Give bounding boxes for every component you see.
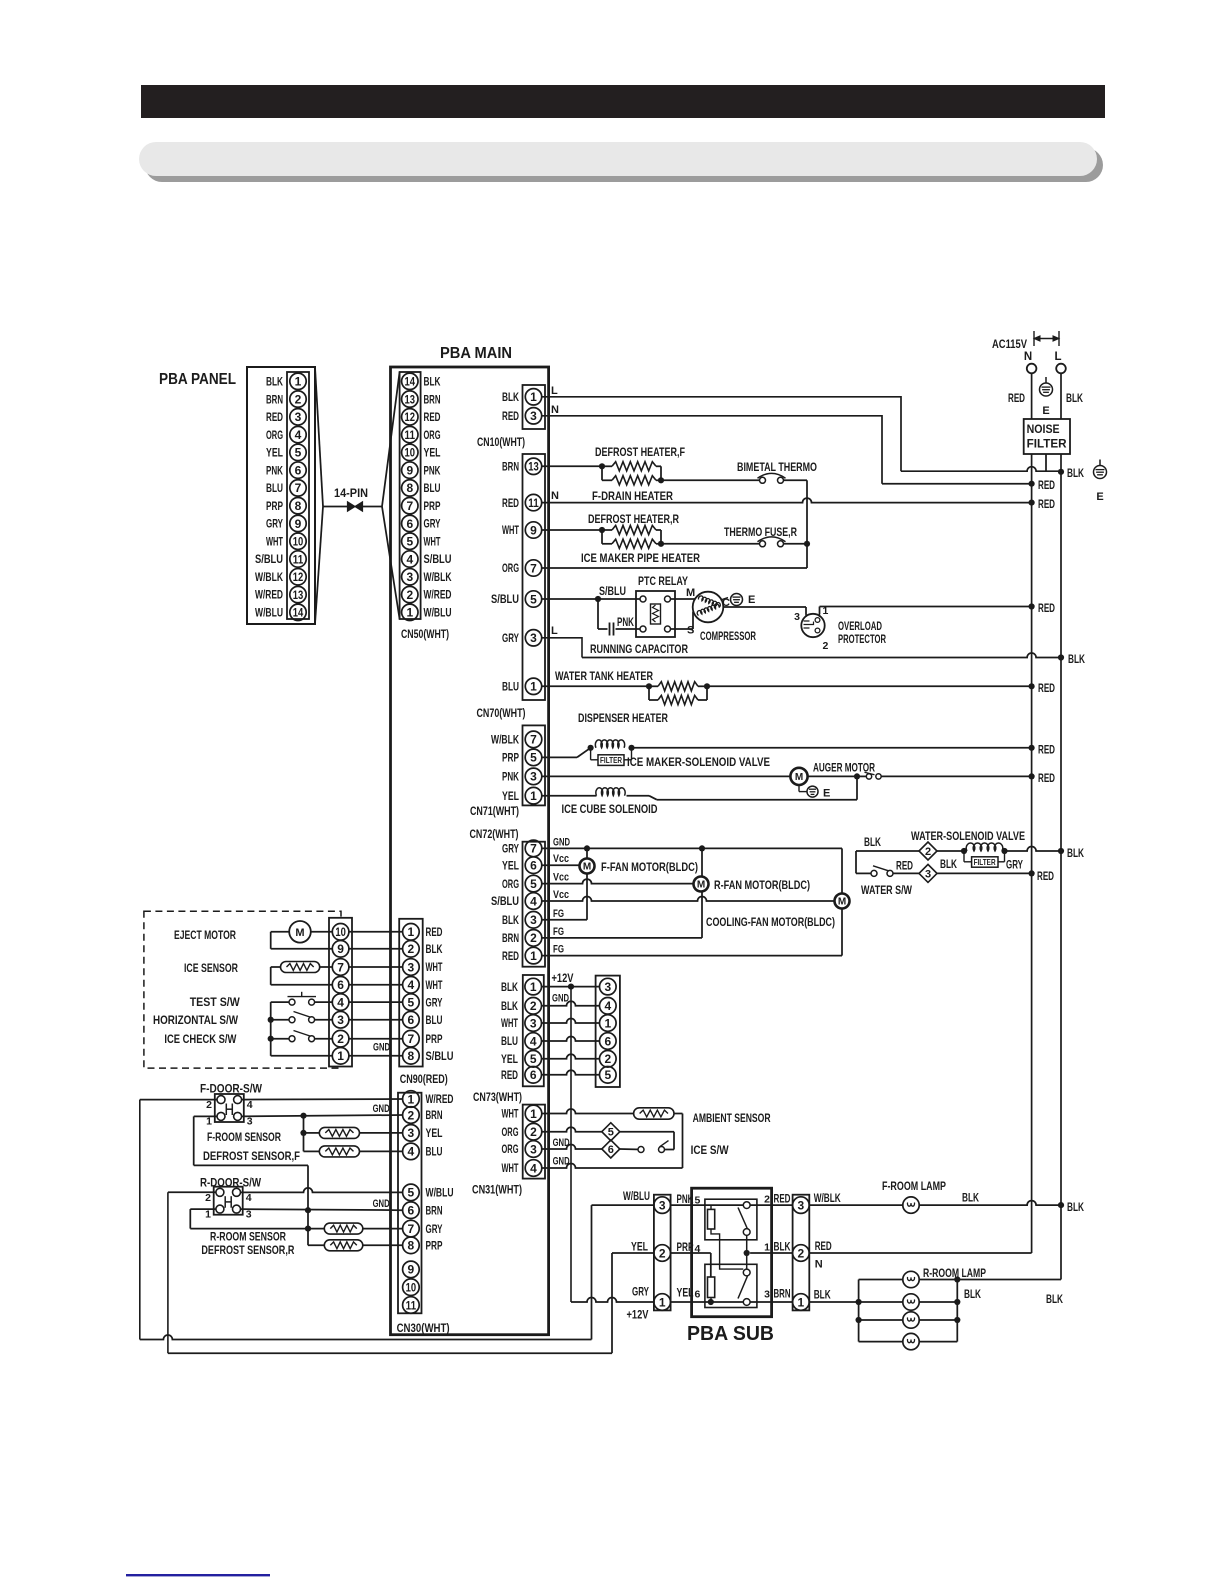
svg-text:RED: RED	[1038, 497, 1055, 511]
svg-text:RED: RED	[502, 496, 519, 510]
wire ice maker pin 2 to CN90 pin 7	[349, 1038, 403, 1040]
wire ice check switch to bus	[271, 1038, 289, 1040]
CN50 pin 12 (RED)	[402, 409, 418, 425]
ice maker pin 7	[332, 959, 349, 976]
bimetal thermo contacts	[760, 477, 766, 483]
svg-text:BLU: BLU	[426, 1145, 443, 1159]
wire CN72-3 FG	[541, 919, 587, 921]
wire CN71-1 to ice cube solenoid	[541, 795, 596, 797]
PBA PANEL connector outer box	[247, 367, 315, 624]
CN30 pin 6 (BRN)	[403, 1202, 420, 1219]
junction S/BLU node	[595, 596, 601, 602]
svg-text:4: 4	[295, 428, 302, 442]
svg-text:4: 4	[406, 552, 413, 566]
PBA SUB left pin 1	[654, 1294, 671, 1311]
svg-text:7: 7	[295, 481, 302, 495]
svg-text:BLK: BLK	[1067, 466, 1084, 480]
connector CN50 strip	[400, 372, 421, 619]
svg-text:S/BLU: S/BLU	[599, 584, 626, 598]
svg-text:7: 7	[337, 960, 344, 974]
PBA PANEL connector pin strip	[287, 372, 309, 619]
wire YEL to PBA SUB pin2	[612, 1252, 655, 1254]
svg-text:S/BLU: S/BLU	[255, 552, 283, 566]
CN71 pin 3 (PNK)	[525, 768, 542, 785]
wire R-door loop bottom	[168, 1352, 612, 1354]
PBA SUB right pin 3	[793, 1197, 810, 1214]
svg-text:PROTECTOR: PROTECTOR	[838, 632, 886, 646]
svg-text:ICE CHECK S/W: ICE CHECK S/W	[164, 1032, 237, 1046]
svg-text:EJECT MOTOR: EJECT MOTOR	[174, 928, 236, 942]
svg-text:4: 4	[408, 978, 415, 992]
svg-text:RED: RED	[266, 410, 283, 424]
wire relay centre out	[750, 1252, 793, 1254]
filter box ice maker	[590, 748, 592, 760]
CN50 pin 3 (W/BLK)	[402, 569, 418, 585]
CN10 pin 1 (BLK)	[525, 389, 541, 405]
svg-text:10: 10	[406, 1281, 417, 1295]
R-fan FG stem	[701, 892, 703, 938]
svg-text:GRY: GRY	[426, 1222, 443, 1236]
ice maker pin 9	[332, 941, 349, 958]
wire node to PTC relay	[598, 598, 640, 600]
svg-text:3: 3	[925, 868, 931, 880]
svg-text:PNK: PNK	[617, 615, 634, 629]
grey rounded banner	[139, 142, 1097, 176]
svg-text:WHT: WHT	[502, 1161, 519, 1175]
junction L rail BLK (F lamp)	[1058, 1202, 1064, 1208]
L rail corner to lamp bank	[957, 1279, 1061, 1281]
sensor ice	[281, 962, 320, 973]
svg-text:FILTER: FILTER	[974, 858, 996, 867]
CN90 pin 4 (WHT)	[403, 977, 420, 994]
connector CN30 strip	[398, 1093, 422, 1314]
wire CN73-3 to display pin 1	[541, 1019, 600, 1024]
wire auger motor to switch	[808, 775, 857, 777]
junction N rail RED (water tank)	[1029, 683, 1035, 689]
svg-text:3: 3	[530, 631, 537, 645]
svg-text:S/BLU: S/BLU	[426, 1049, 454, 1063]
wire CN72-6 Vcc to F-fan	[541, 864, 579, 866]
CN90 pin 1 (RED)	[403, 924, 420, 941]
svg-text:6: 6	[604, 1034, 611, 1048]
svg-text:M: M	[583, 862, 591, 873]
svg-text:COOLING-FAN MOTOR(BLDC): COOLING-FAN MOTOR(BLDC)	[706, 915, 835, 929]
junction GND F-fan	[584, 845, 590, 851]
compressor motor circle	[693, 592, 724, 623]
svg-text:3: 3	[530, 1142, 537, 1156]
wire ice maker pin 3 to CN90 pin 6	[349, 1019, 403, 1021]
ice maker pin 1	[332, 1048, 349, 1065]
svg-text:9: 9	[337, 942, 344, 956]
F-fan GND stem	[586, 848, 588, 858]
CN71 pin 1 (YEL)	[525, 787, 542, 804]
wire F-door pin4 to CN30-1	[242, 1098, 403, 1101]
wire test switch to bus	[271, 1001, 289, 1003]
svg-text:BLK: BLK	[962, 1191, 979, 1205]
svg-text:1: 1	[206, 1116, 212, 1128]
CN72 pin 1 (RED)	[525, 947, 542, 964]
wire water valve left	[856, 850, 919, 852]
svg-text:12: 12	[293, 570, 304, 584]
switch common bus	[270, 1002, 272, 1056]
svg-text:R-ROOM SENSOR: R-ROOM SENSOR	[210, 1230, 286, 1244]
PBA SUB right pin 2	[793, 1245, 810, 1262]
svg-text:CN10(WHT): CN10(WHT)	[477, 435, 525, 449]
connector display strip	[596, 976, 620, 1087]
lamp R-room 2	[903, 1294, 919, 1310]
harness taper from PBA PANEL	[315, 367, 323, 507]
svg-text:7: 7	[406, 499, 413, 513]
junction relay centre	[744, 1250, 750, 1256]
svg-text:ORG: ORG	[502, 1125, 519, 1139]
svg-text:WATER TANK HEATER: WATER TANK HEATER	[555, 669, 653, 683]
lamp bank row 4	[859, 1341, 903, 1343]
wire diamond3 to N rail	[937, 872, 1032, 874]
svg-text:1: 1	[406, 606, 413, 620]
wire to bimetal thermo	[661, 479, 760, 481]
PBA PANEL pin 3 (RED)	[290, 409, 306, 425]
svg-text:RED: RED	[424, 410, 441, 424]
svg-text:DISPENSER HEATER: DISPENSER HEATER	[578, 711, 668, 725]
svg-text:L: L	[1054, 351, 1061, 363]
display connector pin 4	[600, 998, 617, 1015]
wire R-door pin2 to left rail	[168, 1191, 216, 1193]
wire CN72-5 Vcc to R-fan	[541, 879, 693, 884]
CN73 pin 4 (BLU)	[525, 1033, 542, 1050]
terminal N	[1027, 364, 1037, 374]
wire PRP4 into sub	[671, 1252, 711, 1254]
svg-text:ICE S/W: ICE S/W	[691, 1143, 730, 1157]
wire overload to N rail	[819, 607, 821, 615]
svg-text:M: M	[295, 927, 304, 939]
junction lamp bank right top	[954, 1276, 960, 1282]
svg-text:6: 6	[337, 978, 344, 992]
wire GND to cooling fan	[841, 848, 843, 893]
CN30 pin 10	[403, 1279, 420, 1296]
PBA SUB board outline	[692, 1188, 772, 1317]
svg-text:2: 2	[337, 1032, 344, 1046]
wire to thermo fuse	[661, 543, 760, 545]
CN70 pin 5 (S/BLU)	[525, 591, 541, 607]
wire CN70-1 to heater	[542, 685, 649, 687]
svg-text:FILTER: FILTER	[600, 756, 622, 765]
svg-text:GRY: GRY	[1006, 858, 1023, 872]
L rail upper	[1060, 373, 1062, 419]
wire to F-room lamp	[809, 1204, 903, 1206]
N rail main	[1031, 454, 1033, 1253]
svg-text:4: 4	[604, 999, 611, 1013]
PBA SUB left pin 3	[654, 1197, 671, 1214]
PBA PANEL pin 1 (BLK)	[290, 373, 306, 389]
sensor F-room	[319, 1127, 359, 1138]
junction N rail RED (top)	[1029, 481, 1035, 487]
svg-text:W/BLU: W/BLU	[255, 606, 283, 620]
svg-text:BLK: BLK	[1067, 1200, 1084, 1214]
test switch contacts	[289, 999, 295, 1005]
svg-text:BLK: BLK	[814, 1288, 831, 1302]
coil ice maker solenoid valve	[595, 740, 624, 748]
svg-text:ICE CUBE SOLENOID: ICE CUBE SOLENOID	[562, 802, 658, 816]
svg-text:4: 4	[246, 1192, 252, 1204]
svg-text:S: S	[687, 625, 694, 637]
svg-text:FILTER: FILTER	[1027, 439, 1068, 451]
svg-text:BLK: BLK	[1067, 846, 1084, 860]
svg-text:1: 1	[530, 390, 537, 404]
svg-text:3: 3	[530, 770, 537, 784]
svg-text:PRP: PRP	[424, 499, 441, 513]
wire PBA SUB pin1 to lamp bank	[809, 1301, 858, 1303]
svg-text:F-ROOM SENSOR: F-ROOM SENSOR	[207, 1130, 281, 1144]
wire F-door pin2 to left rail	[140, 1099, 217, 1101]
wire F-room lamp to L rail	[919, 1201, 1061, 1206]
wire relay bottom line out	[750, 1301, 793, 1303]
svg-text:BLU: BLU	[502, 680, 519, 694]
svg-text:6: 6	[408, 1204, 415, 1218]
svg-text:2: 2	[406, 588, 413, 602]
wire R-door pin4 to CN30-5	[241, 1188, 403, 1193]
svg-text:4: 4	[530, 1161, 537, 1175]
CN72 pin 5 (ORG)	[525, 875, 542, 892]
svg-text:ICE SENSOR: ICE SENSOR	[184, 961, 238, 975]
svg-text:3: 3	[604, 980, 611, 994]
svg-text:3: 3	[794, 611, 800, 623]
svg-text:1: 1	[205, 1208, 211, 1220]
svg-text:GND: GND	[373, 1103, 390, 1115]
CN50 pin 8 (BLU)	[402, 480, 418, 496]
wire CN72-1 FG	[541, 955, 842, 957]
relay bottom contact lower	[743, 1299, 750, 1306]
PTC relay box	[636, 591, 675, 637]
svg-text:14-PIN: 14-PIN	[334, 486, 368, 500]
wire CN70-13 to heater	[542, 465, 602, 467]
water switch contacts	[871, 870, 877, 876]
svg-text:M: M	[838, 897, 846, 908]
wire relay bottom line	[671, 1301, 744, 1303]
svg-text:4: 4	[408, 1145, 415, 1159]
motor R-fan	[694, 877, 709, 892]
wire CN10-3 N to N rail	[542, 416, 882, 484]
wire ambient sensor return	[674, 1113, 683, 1115]
svg-text:8: 8	[406, 481, 413, 495]
relay top contact lower	[743, 1229, 750, 1236]
svg-text:DEFROST HEATER,F: DEFROST HEATER,F	[595, 445, 685, 459]
svg-text:5: 5	[295, 446, 302, 460]
svg-text:BLK: BLK	[964, 1287, 981, 1301]
svg-text:AMBIENT SENSOR: AMBIENT SENSOR	[693, 1111, 771, 1125]
svg-text:YEL: YEL	[501, 1052, 518, 1066]
svg-text:9: 9	[408, 1263, 415, 1277]
wire R-room sensor to CN30-7	[363, 1228, 403, 1230]
junction R GND	[305, 1207, 311, 1213]
connector CN72 strip	[523, 842, 546, 967]
junction N rail RED (F-drain)	[1029, 500, 1035, 506]
wire CN73-4 to display pin 6	[541, 1037, 600, 1042]
svg-text:WHT: WHT	[266, 534, 283, 548]
junction R room sensor	[305, 1226, 311, 1232]
ice maker assembly dashed box	[144, 911, 341, 1068]
diamond terminal 6	[602, 1140, 620, 1158]
svg-text:6: 6	[530, 859, 537, 873]
wire CN10-1 L to noise filter area	[542, 397, 901, 471]
svg-text:RUNNING CAPACITOR: RUNNING CAPACITOR	[590, 642, 688, 656]
svg-text:1: 1	[530, 680, 537, 694]
coil ice cube solenoid	[596, 788, 625, 796]
CN90 pin 8 (S/BLU)	[403, 1048, 420, 1065]
CN50 pin 9 (PNK)	[402, 462, 418, 478]
ice maker connector strip	[329, 918, 352, 1067]
svg-text:8: 8	[295, 499, 302, 513]
svg-text:2: 2	[925, 846, 931, 858]
svg-text:5: 5	[530, 592, 537, 606]
wire CN73-1 +12V	[541, 986, 600, 988]
resistor defrost heater F top	[602, 465, 612, 467]
CN50 pin 13 (BRN)	[402, 391, 418, 407]
lamp bank row 3	[859, 1319, 903, 1321]
svg-text:CN31(WHT): CN31(WHT)	[472, 1183, 522, 1197]
CN72 pin 4 (S/BLU)	[525, 893, 542, 910]
left rail from F-door	[139, 1100, 141, 1340]
PBA PANEL pin 7 (BLU)	[290, 480, 306, 496]
svg-text:TEST S/W: TEST S/W	[190, 995, 241, 1009]
svg-text:6: 6	[695, 1289, 701, 1301]
PBA PANEL pin 6 (PNK)	[290, 462, 306, 478]
ice maker pin 3	[332, 1011, 349, 1028]
junction water coil right	[1001, 848, 1007, 854]
junction defrost R right	[658, 541, 664, 547]
sensor R-room	[324, 1223, 363, 1234]
svg-text:BLK: BLK	[426, 942, 443, 956]
svg-text:S/BLU: S/BLU	[424, 552, 452, 566]
relay top block	[705, 1199, 757, 1240]
PBA SUB right pin 1	[793, 1294, 810, 1311]
svg-text:YEL: YEL	[502, 858, 519, 872]
svg-text:AC115V: AC115V	[992, 337, 1027, 351]
svg-text:YEL: YEL	[631, 1240, 648, 1254]
R sensor common drop	[307, 1210, 309, 1245]
wire relay top line	[671, 1204, 744, 1206]
wire diamond6 to ice switch	[620, 1148, 638, 1150]
lamp R-room 4	[903, 1333, 919, 1349]
svg-text:NOISE: NOISE	[1027, 424, 1060, 436]
svg-text:YEL: YEL	[266, 446, 283, 460]
resistor defrost heater R top	[602, 529, 612, 531]
svg-text:PNK: PNK	[502, 770, 519, 784]
svg-text:S/BLU: S/BLU	[491, 592, 519, 606]
svg-text:W/BLK: W/BLK	[814, 1191, 841, 1205]
svg-text:3: 3	[798, 1198, 805, 1212]
wire diamond2 to coil	[937, 850, 964, 852]
svg-text:5: 5	[406, 535, 413, 549]
svg-text:4: 4	[530, 1034, 537, 1048]
CN73 pin 2 (BLK)	[525, 998, 542, 1015]
svg-text:WHT: WHT	[426, 978, 443, 992]
svg-text:RED: RED	[502, 949, 519, 963]
junction defrost F left	[599, 463, 605, 469]
svg-text:ORG: ORG	[424, 428, 441, 442]
junction lamp bank left 2	[856, 1299, 862, 1305]
svg-text:BIMETAL THERMO: BIMETAL THERMO	[737, 460, 817, 474]
svg-text:HORIZONTAL S/W: HORIZONTAL S/W	[153, 1013, 239, 1027]
svg-text:7: 7	[408, 1032, 415, 1046]
wire ice maker pin 4 to CN90 pin 5	[349, 1001, 403, 1003]
svg-text:PBA MAIN: PBA MAIN	[440, 345, 512, 362]
svg-text:BLK: BLK	[266, 375, 283, 389]
ice check switch contacts	[289, 1036, 295, 1042]
connector CN70 strip	[523, 454, 546, 700]
PBA PANEL pin 4 (ORG)	[290, 426, 306, 442]
wire eject motor to pin9	[271, 931, 290, 933]
svg-text:WHT: WHT	[501, 1016, 518, 1030]
CN90 pin 3 (WHT)	[403, 959, 420, 976]
svg-text:8: 8	[408, 1049, 415, 1063]
wire F-door loop riser	[591, 1205, 593, 1339]
svg-text:RED: RED	[1008, 391, 1025, 405]
PBA PANEL pin 11 (S/BLU)	[290, 551, 306, 567]
PBA PANEL pin 8 (PRP)	[290, 497, 306, 513]
wire thermo fuse to bus	[784, 543, 808, 545]
CN71 pin 5 (PRP)	[525, 749, 542, 766]
svg-text:GND: GND	[553, 836, 570, 848]
relay coil bottom	[708, 1277, 715, 1298]
wire CN72-7 GND bus	[541, 847, 842, 849]
motor eject	[289, 921, 311, 943]
svg-text:BLU: BLU	[424, 481, 441, 495]
svg-text:1: 1	[530, 980, 537, 994]
svg-text:2: 2	[295, 392, 302, 406]
svg-text:DEFROST HEATER,R: DEFROST HEATER,R	[588, 512, 679, 526]
harness taper to CN50	[382, 372, 400, 507]
svg-text:CN71(WHT): CN71(WHT)	[470, 804, 519, 818]
wire CN70-3 L to L rail	[542, 638, 582, 658]
wire R-door pin3 to CN30-6 GND	[241, 1209, 403, 1210]
wire PTC to compressor M	[671, 598, 695, 600]
svg-text:WATER S/W: WATER S/W	[861, 883, 913, 897]
svg-text:2: 2	[530, 999, 537, 1013]
connector CN31 strip	[523, 1105, 545, 1179]
wire horizontal switch to bus	[271, 1019, 289, 1021]
svg-text:RED: RED	[1038, 771, 1055, 785]
CN31 pin 1 (WHT)	[525, 1105, 542, 1122]
svg-text:BRN: BRN	[426, 1108, 443, 1122]
resistor water tank heater top	[649, 685, 658, 687]
cooling fan FG stem	[841, 909, 843, 956]
wire ice sensor to pin6	[271, 966, 281, 968]
CN31 pin 2 (ORG)	[525, 1123, 542, 1140]
svg-text:WHT: WHT	[424, 534, 441, 548]
display connector pin 6	[600, 1033, 617, 1050]
CN71 pin 7 (W/BLK)	[525, 731, 542, 748]
svg-text:PRP: PRP	[426, 1239, 443, 1253]
motor F-fan	[580, 859, 595, 874]
junction bimetal/fuse bus	[804, 541, 810, 547]
svg-text:RED: RED	[774, 1192, 791, 1206]
svg-text:W/BLU: W/BLU	[623, 1189, 650, 1203]
junction F GND	[300, 1113, 306, 1119]
svg-text:BLK: BLK	[864, 835, 881, 849]
earth symbol at compressor	[736, 593, 738, 595]
wire CN71-5 to ice maker solenoid	[541, 756, 577, 758]
svg-text:14: 14	[293, 606, 304, 620]
PBA PANEL pin 2 (BRN)	[290, 391, 306, 407]
relay centre link	[746, 1235, 748, 1269]
svg-text:1: 1	[408, 1092, 415, 1106]
svg-text:1: 1	[530, 949, 537, 963]
relay top lever	[738, 1208, 748, 1230]
svg-text:BRN: BRN	[502, 931, 519, 945]
CN73 pin 1 (BLK)	[525, 978, 542, 995]
CN70 pin 9 (WHT)	[525, 522, 541, 538]
CN50 pin 6 (GRY)	[402, 515, 418, 531]
